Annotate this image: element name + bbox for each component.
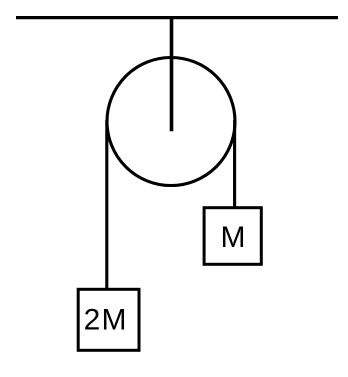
svg-text:2M: 2M	[84, 303, 128, 336]
svg-text:M: M	[221, 221, 246, 254]
